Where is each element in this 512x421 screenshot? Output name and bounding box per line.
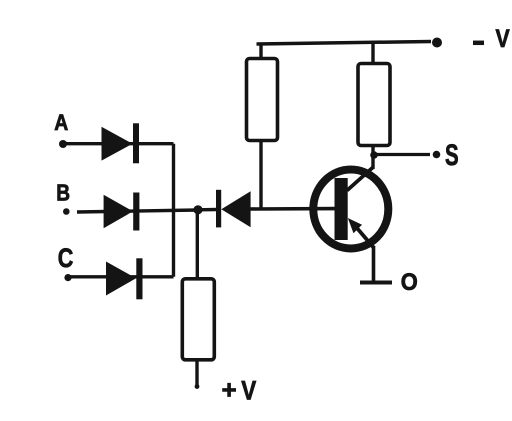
svg-text:V: V: [496, 25, 510, 53]
svg-text:O: O: [401, 269, 418, 296]
svg-text:S: S: [445, 139, 459, 172]
svg-text:V: V: [241, 376, 256, 406]
svg-text:+: +: [222, 374, 237, 404]
svg-text:A: A: [54, 110, 68, 135]
svg-text:B: B: [56, 179, 70, 205]
svg-text:C: C: [58, 243, 74, 273]
